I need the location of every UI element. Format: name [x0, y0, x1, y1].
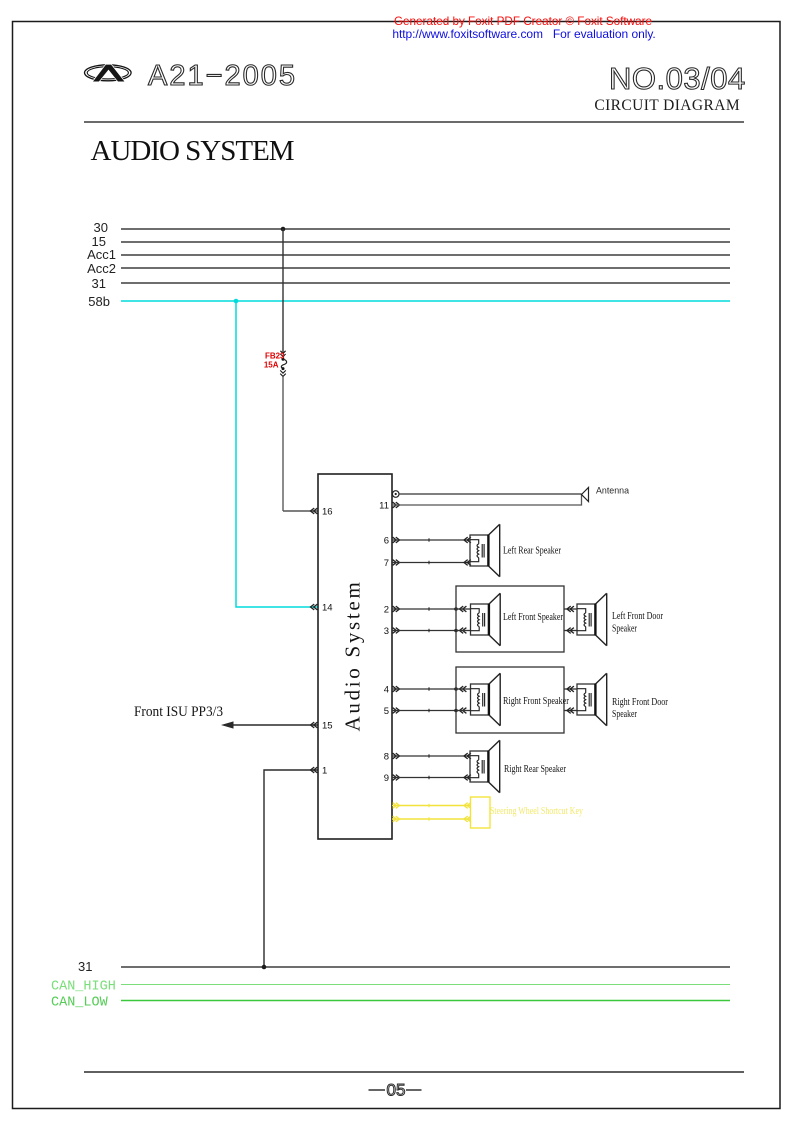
svg-text:4: 4: [384, 685, 389, 696]
svg-text:14: 14: [322, 603, 333, 614]
svg-text:5: 5: [384, 706, 389, 717]
svg-text:05: 05: [387, 1081, 406, 1100]
svg-text:CIRCUIT DIAGRAM: CIRCUIT DIAGRAM: [594, 97, 740, 114]
svg-text:Speaker: Speaker: [612, 709, 638, 720]
svg-text:31: 31: [92, 276, 106, 291]
svg-text:CAN_HIGH: CAN_HIGH: [51, 980, 116, 995]
svg-text:15: 15: [322, 721, 333, 732]
svg-text:Antenna: Antenna: [596, 486, 630, 497]
svg-text:A21−2005: A21−2005: [148, 60, 297, 92]
svg-text:9: 9: [384, 773, 389, 784]
svg-text:58b: 58b: [88, 294, 110, 309]
svg-text:2: 2: [384, 605, 389, 616]
svg-text:11: 11: [379, 501, 389, 512]
svg-text:Right Front Speaker: Right Front Speaker: [503, 696, 570, 707]
svg-text:Left Rear Speaker: Left Rear Speaker: [503, 546, 562, 557]
svg-text:15A: 15A: [264, 361, 279, 370]
svg-text:16: 16: [322, 507, 333, 518]
svg-text:31: 31: [78, 959, 92, 974]
svg-text:1: 1: [322, 766, 327, 777]
svg-text:Acc1: Acc1: [87, 247, 116, 262]
svg-text:3: 3: [384, 626, 389, 637]
svg-text:Front ISU PP3/3: Front ISU PP3/3: [134, 704, 223, 720]
svg-text:30: 30: [94, 220, 108, 235]
svg-text:Right Front Door: Right Front Door: [612, 697, 669, 708]
svg-text:7: 7: [384, 558, 389, 569]
svg-text:FB23: FB23: [265, 351, 285, 360]
svg-text:8: 8: [384, 752, 389, 763]
svg-text:http://www.foxitsoftware.com: http://www.foxitsoftware.com For evaluat…: [392, 27, 655, 41]
svg-text:Right Rear Speaker: Right Rear Speaker: [504, 764, 567, 775]
svg-text:6: 6: [384, 536, 389, 547]
svg-text:Left Front Speaker: Left Front Speaker: [503, 612, 564, 623]
svg-text:NO.03/04: NO.03/04: [609, 61, 746, 96]
svg-text:Steering Wheel Shortcut Key: Steering Wheel Shortcut Key: [490, 806, 583, 817]
svg-text:Audio System: Audio System: [341, 580, 365, 732]
svg-text:Left Front Door: Left Front Door: [612, 611, 664, 622]
svg-text:CAN_LOW: CAN_LOW: [51, 996, 109, 1011]
svg-text:Acc2: Acc2: [87, 261, 116, 276]
svg-text:AUDIO SYSTEM: AUDIO SYSTEM: [91, 135, 294, 167]
svg-text:Speaker: Speaker: [612, 624, 638, 635]
